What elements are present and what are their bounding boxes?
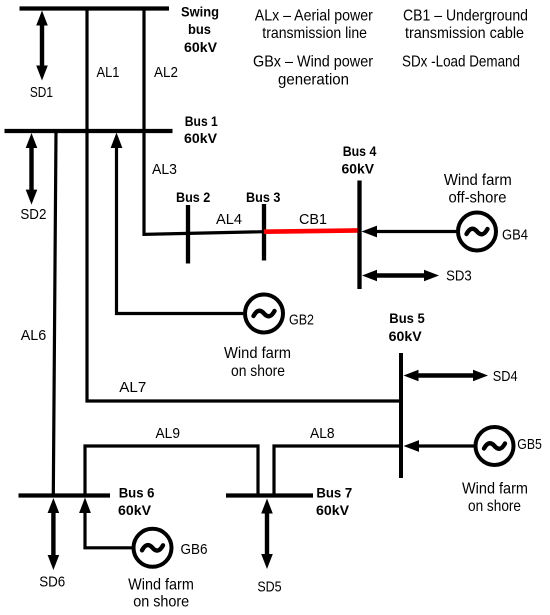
svg-text:GB4: GB4 [502, 227, 528, 244]
svg-text:SD1: SD1 [30, 84, 53, 101]
svg-text:AL1: AL1 [97, 64, 120, 81]
svg-text:Bus 5: Bus 5 [389, 310, 425, 326]
svg-text:GB6: GB6 [181, 541, 208, 558]
svg-text:AL6: AL6 [21, 327, 47, 344]
label Wind farm on shore (GB5) [462, 481, 528, 516]
wire AL7 [87, 131, 401, 401]
wire GB6 to Bus 6 with arrow [79, 498, 133, 548]
bus bar: Bus 6 [19, 493, 111, 497]
bus bar: Bus 3 [262, 204, 266, 261]
svg-text:60kV: 60kV [118, 502, 152, 518]
svg-text:AL3: AL3 [152, 161, 177, 178]
bus bar: Bus 1 [5, 129, 173, 133]
bus bar: Bus 4 [357, 181, 361, 290]
svg-text:60kV: 60kV [184, 39, 218, 55]
label Wind farm on shore (GB2) [224, 345, 291, 380]
load arrow SD4 [404, 370, 489, 382]
svg-text:CB1 – Underground: CB1 – Underground [403, 8, 528, 25]
wire GB5 to Bus 5 with arrow [404, 440, 475, 452]
bus bar: Bus 5 [399, 353, 403, 478]
svg-text:Wind farm: Wind farm [462, 481, 528, 498]
svg-text:Bus 2: Bus 2 [176, 189, 210, 205]
svg-text:Bus 1: Bus 1 [185, 113, 218, 129]
svg-text:60kV: 60kV [316, 502, 350, 518]
svg-text:on shore: on shore [231, 363, 285, 380]
svg-text:GB5: GB5 [517, 436, 542, 453]
load arrow SD6 [48, 498, 60, 570]
svg-text:GBx – Wind power: GBx – Wind power [253, 54, 374, 71]
svg-text:Swing: Swing [181, 4, 219, 20]
svg-text:60kV: 60kV [389, 328, 423, 344]
svg-text:SD3: SD3 [446, 268, 472, 285]
generator GB5 (wind farm on shore) [476, 427, 514, 465]
cable CB1 (red underground cable Bus 3 to Bus 4) [264, 230, 360, 231]
svg-text:SD4: SD4 [493, 368, 518, 385]
svg-text:AL7: AL7 [119, 379, 146, 396]
svg-text:SD5: SD5 [257, 578, 281, 595]
legend text ALx [255, 8, 374, 42]
label Bus 7 60kV [316, 485, 352, 519]
load arrow SD1 [36, 11, 48, 81]
wire AL2 [142, 9, 145, 132]
wire GB4 to Bus 4 with arrow [362, 226, 459, 238]
generator GB6 (wind farm on shore) [134, 529, 172, 567]
label Bus 1 60kV [184, 113, 218, 146]
svg-text:on shore: on shore [468, 498, 521, 515]
svg-text:60kV: 60kV [342, 161, 375, 177]
label Wind farm off-shore [444, 172, 512, 207]
svg-text:Wind farm: Wind farm [128, 576, 194, 593]
label Bus 4 60kV [342, 143, 377, 177]
svg-text:AL8: AL8 [310, 425, 335, 442]
svg-text:Bus 4: Bus 4 [343, 143, 377, 159]
bus bar: Bus 2 [186, 205, 190, 264]
wire AL3 (vertical + horizontal to Bus 2) [144, 131, 188, 234]
load arrow SD2 [26, 133, 38, 205]
label Swing bus 60kV [181, 4, 219, 56]
legend text CB1 [403, 8, 528, 42]
bus bar: Swing bus [20, 6, 170, 10]
label Bus 5 60kV [389, 310, 425, 344]
label Wind farm on shore (GB6) [128, 576, 194, 610]
bus bar: Bus 7 [226, 493, 313, 497]
svg-text:Bus 3: Bus 3 [246, 189, 281, 205]
svg-text:transmission line: transmission line [262, 25, 367, 42]
svg-text:CB1: CB1 [299, 211, 327, 228]
svg-text:Bus 6: Bus 6 [119, 485, 155, 501]
svg-text:transmission cable: transmission cable [405, 25, 524, 42]
label Bus 6 60kV [118, 485, 155, 519]
svg-text:60kV: 60kV [184, 130, 218, 146]
svg-text:AL9: AL9 [156, 425, 181, 442]
wire AL6 [53, 131, 56, 496]
generator GB4 (wind farm off-shore) [458, 213, 496, 251]
svg-text:SDx -Load Demand: SDx -Load Demand [402, 54, 520, 71]
svg-text:bus: bus [188, 21, 211, 37]
svg-text:Wind farm: Wind farm [224, 345, 291, 362]
svg-text:SD6: SD6 [39, 573, 65, 590]
wire AL4 (Bus 2 to Bus 3) [188, 232, 264, 234]
svg-text:off-shore: off-shore [448, 190, 506, 207]
load arrow SD3 [362, 270, 439, 282]
wire AL1 [85, 9, 88, 132]
svg-text:GB2: GB2 [289, 312, 314, 329]
svg-text:ALx – Aerial power: ALx – Aerial power [255, 8, 374, 25]
generator GB2 (wind farm on shore) [245, 295, 283, 333]
load arrow SD5 [261, 499, 273, 570]
wire AL9 (horizontal + drops to Bus 6 and Bus 7) [85, 446, 258, 496]
wire GB2 to Bus 1 with arrow [111, 133, 243, 314]
svg-text:SD2: SD2 [20, 206, 46, 223]
svg-text:on shore: on shore [133, 593, 189, 610]
wire AL8 (horizontal + drop to Bus 7) [274, 446, 401, 496]
svg-text:generation: generation [278, 72, 349, 89]
legend text GBx [253, 54, 374, 89]
svg-text:AL2: AL2 [154, 64, 178, 81]
svg-text:Bus 7: Bus 7 [316, 485, 352, 501]
svg-text:Wind farm: Wind farm [444, 172, 512, 189]
svg-text:AL4: AL4 [216, 211, 242, 228]
